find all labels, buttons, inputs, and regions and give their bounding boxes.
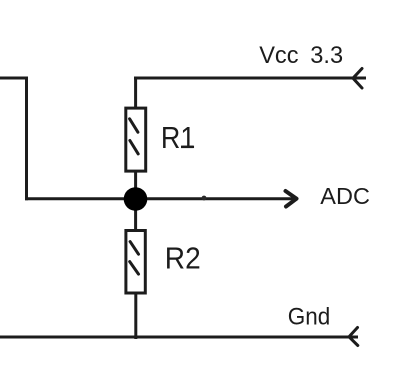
svg-text:3.3: 3.3 [310, 43, 343, 69]
svg-text:Gnd: Gnd [288, 303, 331, 330]
arrowhead ADC (pointing right) [286, 191, 297, 207]
svg-text:ADC: ADC [320, 183, 370, 209]
wire middle horizontal to ADC [25, 197, 294, 200]
node junction dot [124, 187, 148, 211]
resistor R2 [126, 231, 145, 294]
svg-text:R1: R1 [161, 121, 195, 155]
svg-text:Vcc: Vcc [259, 43, 299, 69]
wire Vcc rail to R1 top [134, 78, 137, 108]
base serif bar of digit 1 in R1 [181, 146, 194, 149]
svg-text:R2: R2 [165, 241, 201, 275]
arrowhead Vcc (open, pointing left) [353, 69, 362, 89]
wire top-left stub [0, 77, 28, 80]
wire Vcc rail horizontal [134, 77, 366, 80]
wire left vertical [25, 77, 28, 201]
wire Gnd rail horizontal [0, 336, 358, 339]
arrowhead Gnd (open, pointing left) [349, 328, 358, 346]
junction speck on ADC wire [202, 196, 207, 201]
wire R2 bottom to Gnd rail [134, 292, 137, 339]
wire node to R2 top [134, 199, 137, 231]
resistor R1 [126, 108, 146, 171]
wire R1 bottom to node [134, 171, 137, 199]
